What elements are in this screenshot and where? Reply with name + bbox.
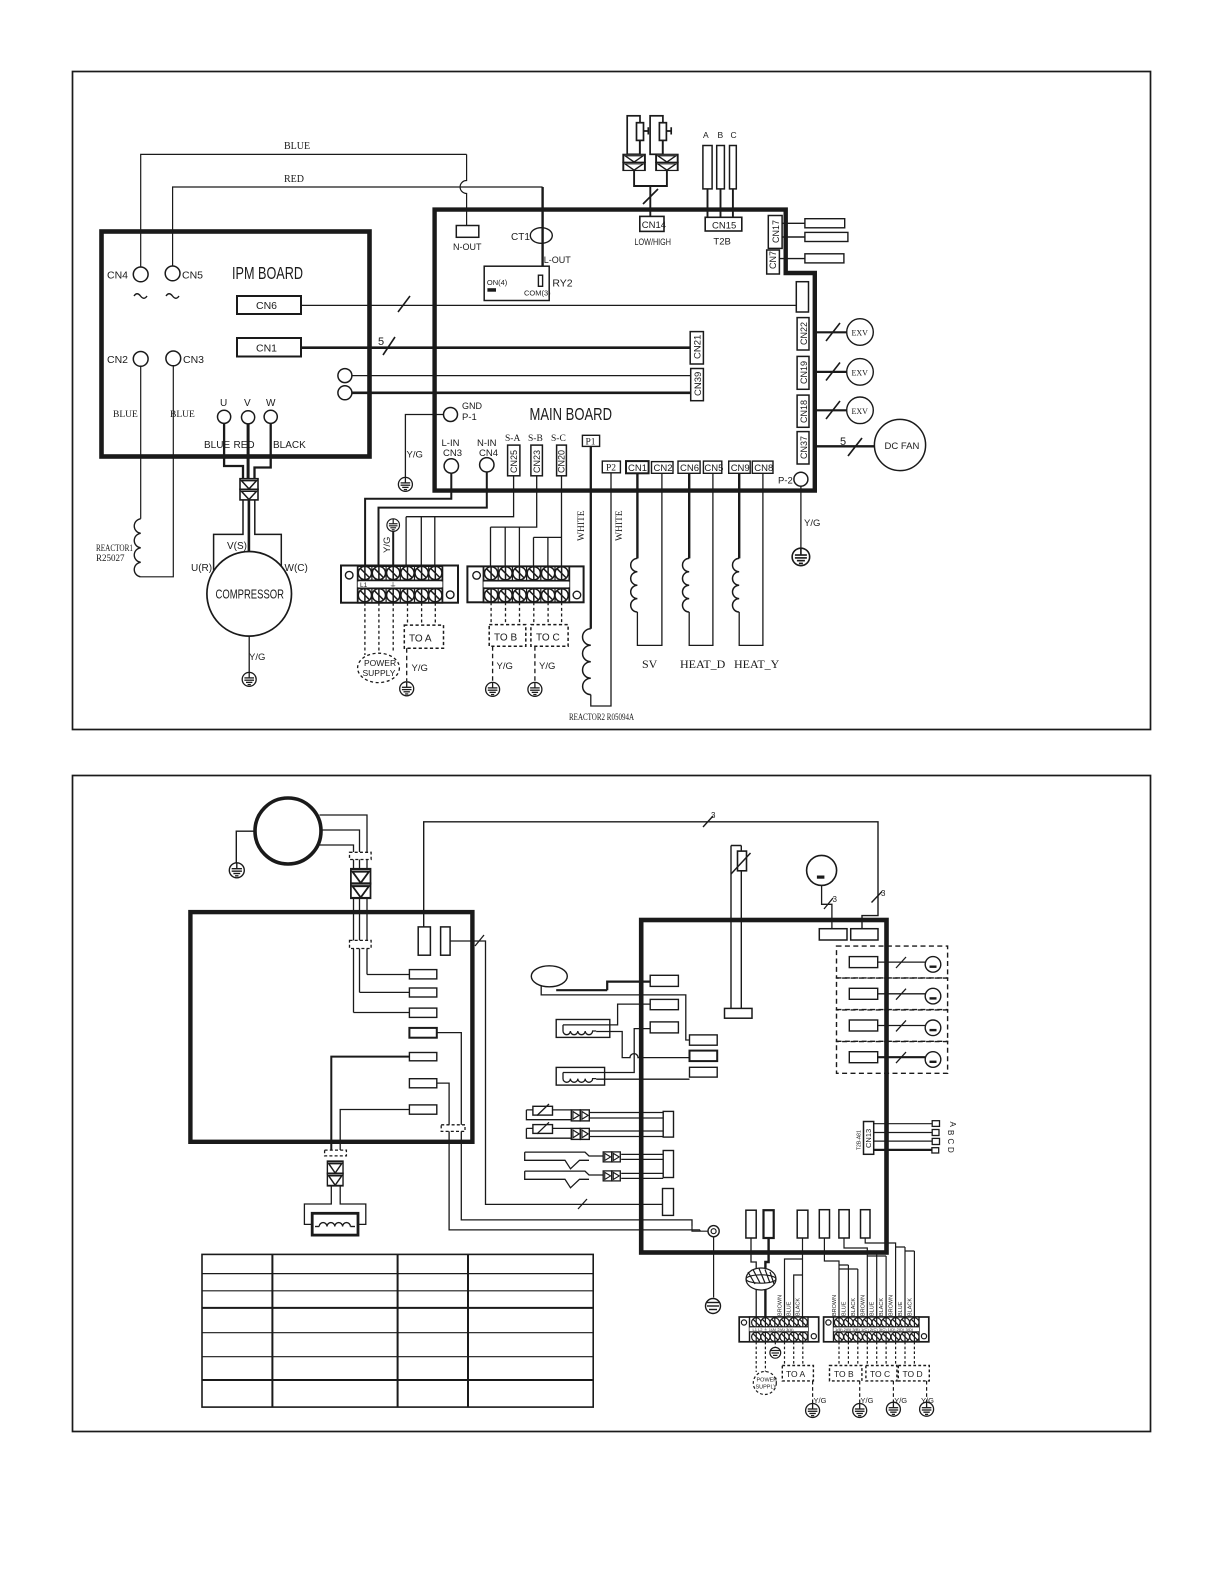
wires sensors to CN15 [708, 189, 733, 217]
HEAT_D coil [683, 558, 690, 612]
svg-text:CN4: CN4 [107, 270, 128, 282]
connector CN17 box [768, 216, 782, 249]
TO B box [830, 1366, 862, 1381]
connector CN4 [133, 267, 148, 282]
wires into plug [354, 860, 368, 870]
svg-text:S-A: S-A [505, 434, 520, 444]
compressor motor circle [255, 798, 321, 864]
svg-text:CN15: CN15 [712, 220, 736, 231]
svg-text:BLUE: BLUE [284, 141, 310, 152]
connector P2 box [602, 461, 620, 473]
right board rect r6 [690, 1067, 718, 1077]
connector CN1 box [237, 338, 301, 357]
wires switches merge to CN14 [634, 170, 667, 216]
bottom connector c2 [764, 1210, 774, 1238]
svg-text:BLACK: BLACK [273, 440, 306, 451]
connector CN1 box (bottom row) [626, 461, 649, 473]
svg-text:BLACK: BLACK [879, 1298, 885, 1316]
svg-text:BLUE: BLUE [113, 410, 138, 420]
right board rect r2 [650, 999, 678, 1009]
wire CN6 to main board [301, 304, 796, 306]
HEAT_Y coil [733, 558, 740, 612]
svg-text:U(R): U(R) [191, 563, 212, 574]
CT wire thin [541, 986, 689, 1040]
svg-text:S-B: S-B [528, 434, 543, 444]
bottom connector c5 [839, 1210, 849, 1238]
side connector box below CN7 [796, 282, 808, 312]
wire pin lower to CN39 [352, 391, 691, 394]
slash 3 on right vertical [872, 892, 883, 903]
svg-text:REACTOR1: REACTOR1 [96, 543, 133, 553]
svg-text:B: B [718, 130, 724, 140]
connector CN3 [166, 351, 181, 366]
row1 plug pair [571, 1110, 589, 1121]
connector CN9 box (bottom row) [729, 461, 751, 473]
RY2 COM contact mark [538, 275, 542, 286]
svg-text:CN23: CN23 [532, 450, 542, 473]
slash on CN1 bus [383, 337, 395, 355]
dashed TB3 cols 4-6 to TO A [785, 1342, 803, 1366]
discharge sensor double line [731, 846, 741, 1009]
heater box H1 [556, 1020, 610, 1038]
dashed TB4 cols to TO B [839, 1342, 858, 1366]
RY2 NO contact mark [487, 288, 496, 292]
svg-text:CN6: CN6 [680, 463, 699, 474]
svg-text:CN1: CN1 [256, 343, 277, 355]
svg-text:B: B [946, 1130, 955, 1135]
svg-text:REACTOR2 R05094A: REACTOR2 R05094A [569, 712, 634, 722]
left board rect1 [409, 970, 436, 979]
reactor2 coil [583, 629, 591, 695]
bottom connector c1 [746, 1210, 756, 1238]
svg-text:BROWN: BROWN [832, 1295, 838, 1316]
right board vertical rect vA [663, 1111, 673, 1137]
pressure switch S1 contact [637, 123, 644, 141]
CT1 ellipse [530, 228, 552, 244]
EXV dashed box 1 [837, 946, 948, 978]
connector CN19 box [797, 356, 809, 389]
right board rect r1 [650, 975, 678, 986]
connector CN23 box [531, 445, 543, 476]
TO B box [489, 625, 526, 647]
wire ground to block1 [392, 532, 394, 566]
ground TO B [486, 682, 500, 696]
legend table [202, 1254, 593, 1407]
compressor wire 2 [321, 830, 360, 852]
wire CN3 down and to reactor1 bottom [141, 366, 174, 577]
fuse on row1 [533, 1106, 553, 1115]
terminal block TB1 [341, 566, 458, 603]
wire S-B bus to block2 terminals 1 2 3 [491, 476, 537, 566]
wire P1 down to reactor2 [590, 446, 592, 628]
SV loop to CN2 [637, 473, 662, 645]
svg-text:P2: P2 [606, 464, 616, 474]
sensor bar B [717, 146, 725, 189]
dashed TB4 cols to TO D [896, 1342, 915, 1366]
wire W to plug [255, 423, 271, 478]
dashed TB3 cols 1-3 to power supply [756, 1342, 775, 1372]
svg-text:CN37: CN37 [799, 436, 809, 459]
wire CN37 to DC FAN with slash [815, 445, 875, 447]
minus circle component [807, 855, 837, 885]
svg-text:CN18: CN18 [799, 400, 809, 423]
svg-text:RY2: RY2 [552, 278, 572, 290]
EXV dashed box 3 [837, 1010, 948, 1042]
svg-text:SV: SV [642, 657, 658, 671]
top panel border frame [73, 72, 1151, 730]
wire S-C bus to block2 terminals 4 5 6 [534, 476, 562, 566]
wire compressor to ground [236, 831, 255, 862]
pin circle upper on IPM right [338, 369, 352, 383]
svg-text:5: 5 [840, 436, 846, 448]
svg-text:CN9: CN9 [731, 463, 750, 474]
dashed drops block2 to TO C [534, 602, 562, 624]
svg-text:COM(3): COM(3) [524, 289, 551, 298]
connector CN8 box (bottom row) [752, 461, 773, 473]
plug bar 1 [805, 219, 845, 228]
svg-text:Y/G: Y/G [412, 663, 428, 674]
connector CN5 box (bottom row) [703, 461, 721, 473]
left board rect3 [409, 1008, 436, 1017]
wire pin upper to CN39 [352, 375, 691, 377]
svg-text:CN3: CN3 [183, 354, 204, 366]
connector CN39 box [691, 369, 704, 401]
svg-text:CT1: CT1 [511, 232, 530, 243]
svg-text:P1: P1 [586, 438, 596, 448]
compressor wire 3 [320, 845, 354, 852]
svg-text:RED: RED [284, 174, 304, 185]
svg-text:BROWN: BROWN [860, 1295, 866, 1316]
svg-text:SUPPLY: SUPPLY [363, 668, 396, 678]
right board rect r4 [690, 1035, 718, 1045]
wire CN19 to EXV2 with slash [815, 371, 847, 373]
IPM board U1 outline [102, 232, 370, 457]
connector CN7 box [767, 250, 780, 274]
right board rect r5 [690, 1051, 718, 1062]
svg-text:L1 L2 ⏚ 1(A) 2(A) 3(A): L1 L2 ⏚ 1(A) 2(A) 3(A) [753, 1326, 795, 1332]
left board rect4 [409, 1028, 436, 1038]
HEAT_Y loop to CN8 [739, 473, 763, 645]
ferrite ring [746, 1268, 776, 1290]
pressure switch S1 body [627, 116, 640, 155]
wire CN9 down (HEAT_Y) [738, 473, 740, 558]
pressure switch S2 plug [656, 154, 678, 162]
svg-text:TO B: TO B [834, 1369, 854, 1379]
connector CN21 box [690, 332, 703, 364]
connector CN20 box [557, 445, 567, 476]
wire c3 down split to TB3 cols 4 5 6 [785, 1238, 803, 1317]
HEAT_D loop to CN5 [689, 473, 713, 645]
slash on box2 wire [475, 935, 484, 946]
svg-text:EXV: EXV [852, 407, 869, 416]
left board rect5 [409, 1053, 436, 1061]
heater box H2 [556, 1067, 604, 1085]
ground P-2 [792, 548, 810, 566]
compressor plug (double bowtie) [351, 869, 371, 884]
ferrite sleeve dashed lower [350, 940, 372, 948]
connector CN2 box (bottom row) [652, 462, 674, 474]
right board connector rectA [819, 929, 847, 940]
mounting hole double circle [708, 1226, 719, 1237]
svg-text:SUPPLY: SUPPLY [756, 1385, 778, 1391]
svg-text:P-2: P-2 [778, 476, 793, 487]
svg-text:L1: L1 [360, 582, 368, 589]
svg-text:CN17: CN17 [771, 220, 781, 243]
svg-text:P-1: P-1 [462, 412, 477, 423]
wire CN2 down to reactor1 [140, 366, 142, 519]
svg-text:BROWN: BROWN [889, 1295, 895, 1316]
wires plug down through board edge [354, 898, 368, 1012]
wire CN1 down (SV) [636, 473, 638, 558]
ground P-1 [398, 477, 412, 491]
bottom connector c4 [819, 1210, 829, 1238]
sensor row 1 loop [526, 1110, 571, 1120]
dashed TO B ground [859, 1381, 861, 1404]
connector CN6 box (bottom row) [678, 461, 700, 473]
connector CN14 box [640, 216, 664, 231]
svg-text:HEAT_D: HEAT_D [680, 657, 726, 671]
svg-text:A: A [948, 1122, 957, 1128]
terminal U [218, 410, 231, 423]
SV coil [631, 558, 638, 612]
svg-text:1(B) 2(B) 3(B) 1(C) 2(C) 3(C): 1(B) 2(B) 3(B) 1(C) 2(C) 3(C) 1(D) 2(D) … [835, 1327, 914, 1332]
svg-text:BLUE: BLUE [841, 1301, 847, 1316]
svg-text:Y/G: Y/G [249, 652, 265, 663]
connector CN2 [133, 352, 148, 367]
connector P1 box [582, 435, 599, 446]
wire rect7 left down to heater plug [340, 1110, 409, 1151]
slash on long run [578, 1199, 587, 1209]
sensor pedestal [725, 1008, 753, 1018]
heater H2 wires [611, 1029, 651, 1073]
top wire with slash 3 [424, 822, 878, 929]
wire CN1 to CN21 (5 wires bus) [301, 346, 690, 349]
svg-text:Y/G: Y/G [539, 661, 555, 672]
dashed TO C to ground [534, 646, 536, 681]
wire c2 down to TB3 (thick) [765, 1238, 768, 1317]
left board rect6 [409, 1079, 436, 1088]
svg-text:CN8: CN8 [754, 463, 773, 474]
left board rect7 [409, 1105, 436, 1114]
MAIN BOARD outline [435, 210, 815, 491]
terminal block TB4 [824, 1317, 929, 1342]
connector N-OUT box [456, 226, 479, 238]
POWER SUPPLY ellipse [358, 653, 400, 682]
svg-text:CN13: CN13 [864, 1129, 873, 1148]
svg-text:BLUE: BLUE [787, 1301, 793, 1316]
varistor on sensor [738, 851, 747, 871]
connector CN22 box [797, 318, 809, 350]
wire BLUE from CN4 [141, 154, 467, 267]
TO C box [531, 625, 568, 647]
pressure switch S1 plug [623, 154, 645, 162]
svg-text:TO A: TO A [786, 1369, 806, 1379]
svg-text:BROWN: BROWN [778, 1295, 784, 1316]
wire BLUE vertical down to N-OUT with hop over RED [460, 154, 466, 225]
svg-text:5: 5 [378, 336, 384, 348]
slash on CN14 wire [643, 189, 658, 204]
ground below compressor [242, 672, 256, 686]
svg-text:BLACK: BLACK [851, 1298, 857, 1316]
svg-text:DC FAN: DC FAN [885, 441, 920, 452]
row3 wires to board [621, 1154, 663, 1159]
svg-text:TO A: TO A [409, 634, 432, 645]
ferrite dashed on rect4/6 runs [441, 1125, 465, 1132]
dashed drops block1 to power supply [365, 603, 393, 657]
wire rect2 [360, 991, 410, 993]
reactor1 coil [134, 519, 140, 577]
svg-text:CN19: CN19 [799, 361, 809, 384]
left board connector box 1 [418, 927, 430, 955]
terminal W [264, 410, 277, 423]
row2 plug pair [571, 1128, 589, 1139]
right board vertical rect vB [663, 1151, 673, 1178]
POWER SUPPLY circle [753, 1372, 776, 1395]
P-1 GND circle [444, 408, 458, 422]
svg-text:3: 3 [833, 895, 838, 904]
connector CN25 box [508, 445, 520, 476]
svg-text:GND: GND [462, 401, 483, 411]
svg-text:W: W [266, 398, 276, 409]
row1 wires to board [589, 1113, 663, 1119]
svg-text:CN5: CN5 [182, 270, 203, 282]
connector CN15 box [705, 217, 742, 231]
pin square B [932, 1130, 939, 1136]
sensor bar A [703, 146, 712, 189]
svg-text:CN14: CN14 [642, 220, 666, 231]
terminal V [242, 411, 255, 424]
right board connector rectB [851, 929, 878, 940]
right control board outline [641, 920, 886, 1253]
EXV3 [847, 397, 874, 424]
wire P-2 to ground [800, 486, 802, 549]
TO A box [782, 1366, 813, 1381]
heater H1 wires [611, 1004, 651, 1025]
svg-text:LOW/HIGH: LOW/HIGH [635, 237, 672, 248]
wires plug to heater [304, 1185, 365, 1224]
svg-text:CN2: CN2 [107, 354, 128, 366]
connector CN6 box [237, 296, 301, 314]
EXV dashed box 4 [837, 1041, 948, 1073]
wire U to plug [224, 423, 243, 478]
wire rect4 right down [437, 1033, 692, 1226]
svg-text:S-C: S-C [551, 434, 566, 444]
svg-text:EXV: EXV [852, 329, 869, 338]
DC FAN motor [874, 419, 925, 470]
connector CN18 box [797, 395, 809, 427]
svg-text:TO B: TO B [494, 633, 517, 644]
wire plug to compressor W(C) [255, 500, 281, 570]
dashed TO D ground [926, 1381, 928, 1402]
CT wire thick [556, 982, 650, 991]
ground TO C [528, 682, 542, 696]
left board connector box 2 [441, 927, 451, 955]
sensor bar C [730, 146, 737, 189]
ground above block1 [387, 519, 400, 532]
pin circle lower on IPM right [338, 386, 352, 400]
svg-text:V(S): V(S) [227, 541, 247, 552]
dashed drops block2 to TO B [491, 602, 519, 624]
svg-text:CN5: CN5 [704, 463, 723, 474]
svg-text:CN3: CN3 [443, 448, 462, 459]
wire CN6 down (HEAT_D) [688, 473, 690, 558]
P-2 circle [794, 472, 808, 486]
EXV2 [847, 359, 874, 386]
ground for compressor [229, 863, 244, 878]
row2 wires to board [589, 1131, 663, 1137]
fuse on row2 [533, 1125, 553, 1134]
wire S-A bus to block1 terminals 4 5 6 [406, 476, 513, 566]
svg-text:CN1: CN1 [628, 463, 647, 474]
right board vertical rect vC [663, 1189, 674, 1216]
wire c5 down split to TB4 cols 4 5 6 [844, 1238, 886, 1317]
svg-text:⏚: ⏚ [390, 582, 397, 590]
svg-text:3: 3 [881, 889, 886, 898]
svg-text:RED: RED [234, 440, 255, 451]
svg-text:W(C): W(C) [285, 563, 308, 574]
heater plug (double bowtie) [327, 1161, 343, 1173]
svg-text:TO C: TO C [536, 633, 560, 644]
wire rect5 left down to heater plug [331, 1057, 409, 1150]
wire rect1 [367, 974, 409, 976]
svg-text:T2B: T2B [713, 237, 730, 248]
wire CN18 to EXV3 with slash [815, 409, 847, 411]
svg-text:A: A [703, 130, 709, 140]
chassis ground [706, 1299, 721, 1314]
compressor wire 1 [320, 815, 368, 852]
svg-text:CN20: CN20 [557, 450, 567, 473]
wire minus circle to rectA with slash 3 [822, 885, 832, 928]
ferrite dashed above heater plug [325, 1150, 347, 1156]
wire V to plug [247, 424, 250, 479]
svg-text:POWER: POWER [364, 658, 396, 668]
pressure switch S2 contact [659, 123, 666, 141]
dashed TO B to ground [492, 646, 494, 681]
svg-text:IPM BOARD: IPM BOARD [232, 263, 303, 283]
svg-text:Y/G: Y/G [497, 661, 513, 672]
pipe sensor row 4 [525, 1171, 604, 1188]
svg-text:CN6: CN6 [256, 300, 277, 312]
wire mounting circle to chassis ground [713, 1237, 715, 1298]
svg-text:BLUE: BLUE [204, 440, 230, 451]
svg-text:POWER: POWER [757, 1378, 778, 1384]
relay RY2 box [484, 266, 549, 300]
terminal block TB3 [739, 1317, 819, 1342]
dashed TO C ground [892, 1381, 894, 1402]
wire CN3 to block1 L1 [365, 473, 451, 565]
EXV dashed box 2 [837, 978, 948, 1010]
wire rect6 right down [437, 1083, 700, 1230]
svg-text:COMPRESSOR: COMPRESSOR [216, 588, 285, 602]
EXV1 [847, 319, 874, 346]
svg-text:BLUE: BLUE [898, 1301, 904, 1316]
pressure switch S2 body [650, 116, 663, 155]
CN17 wires to plugs [782, 223, 805, 237]
svg-text:WHITE: WHITE [615, 510, 625, 541]
svg-text:BLACK: BLACK [907, 1298, 913, 1316]
dashed TO A to ground [406, 648, 408, 681]
pin square C [932, 1138, 939, 1144]
wire c6 down split to TB4 cols 7 8 9 [865, 1238, 914, 1317]
svg-text:3: 3 [711, 811, 716, 820]
CN7 wire to plug [779, 258, 805, 260]
svg-text:CN7: CN7 [768, 251, 778, 269]
svg-text:C: C [946, 1139, 955, 1145]
slash on CN6 wire [398, 296, 410, 312]
TO C box [866, 1366, 897, 1381]
svg-text:HEAT_Y: HEAT_Y [734, 657, 780, 671]
TO D box [898, 1366, 929, 1381]
